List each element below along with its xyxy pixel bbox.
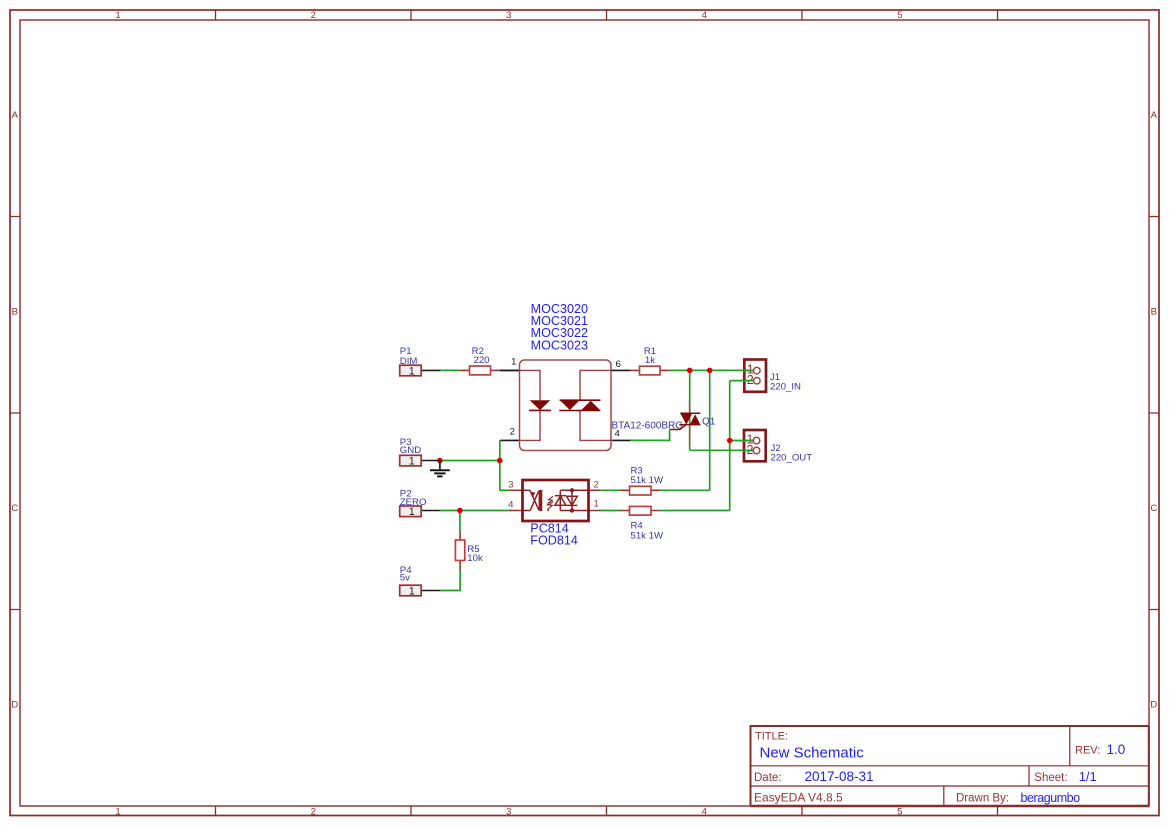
ruler ticks left <box>10 217 20 610</box>
svg-text:EasyEDA V4.8.5: EasyEDA V4.8.5 <box>754 791 843 805</box>
svg-text:A: A <box>1151 110 1158 121</box>
junction node R1-J1 a <box>687 368 693 374</box>
svg-text:beragumbo: beragumbo <box>1021 791 1081 805</box>
wire vertical net MT2 to J2 pin2 row <box>689 370 691 450</box>
wire P2 to PC814 pin4 <box>439 510 511 512</box>
label MOC3020 list <box>531 302 588 352</box>
svg-text:1k: 1k <box>645 355 655 366</box>
svg-text:Sheet:: Sheet: <box>1034 772 1067 784</box>
connector J2 <box>742 430 765 461</box>
wire R5 to P4 row <box>439 570 460 591</box>
svg-text:1: 1 <box>115 10 120 21</box>
svg-text:REV:: REV: <box>1075 745 1100 757</box>
svg-text:C: C <box>1150 503 1157 514</box>
svg-text:1.0: 1.0 <box>1107 742 1126 757</box>
junction node GND-MOC2 <box>497 458 503 464</box>
svg-text:51k 1W: 51k 1W <box>631 475 664 486</box>
svg-text:1: 1 <box>594 499 599 510</box>
svg-text:220_IN: 220_IN <box>770 382 801 393</box>
wire R3 to vertical <box>660 489 710 491</box>
optocoupler U2 PC814 <box>508 479 600 521</box>
svg-text:3: 3 <box>508 479 513 490</box>
svg-text:FOD814: FOD814 <box>530 534 578 548</box>
svg-text:1: 1 <box>409 506 415 518</box>
PC814 pin numbers <box>508 479 599 510</box>
svg-text:1: 1 <box>409 365 415 377</box>
junction node ZERO-R5 <box>457 508 463 514</box>
svg-text:Drawn By:: Drawn By: <box>956 793 1009 805</box>
svg-text:2: 2 <box>311 806 316 817</box>
junction node R1-J1 b <box>707 368 713 374</box>
MOC LED <box>530 400 550 410</box>
svg-text:4: 4 <box>702 10 707 21</box>
svg-text:6: 6 <box>616 359 621 370</box>
label PC814 FOD814 <box>530 522 578 548</box>
svg-text:1: 1 <box>409 585 415 597</box>
wire R1 to J1 pin1 <box>669 369 753 371</box>
svg-text:D: D <box>1150 700 1157 711</box>
connector J1 <box>743 360 766 392</box>
wire GND row P3 <box>440 460 500 462</box>
wire into PC814 pin3 <box>500 489 511 491</box>
wire vertical J1 pin2 to R4 <box>729 381 731 511</box>
svg-text:D: D <box>11 700 18 711</box>
wire PC pin1 to R4 <box>600 510 621 512</box>
wire J2 pin1 stub <box>730 440 753 442</box>
resistor R5 <box>455 531 464 570</box>
wire J1 pin2 stub <box>730 380 754 382</box>
svg-text:A: A <box>12 110 19 121</box>
svg-text:TITLE:: TITLE: <box>755 730 788 742</box>
opto-triac U MOC3020 <box>500 357 630 451</box>
svg-text:B: B <box>1151 307 1157 318</box>
wire vertical MOC pin2 to PC pin3 <box>499 440 501 490</box>
svg-text:Date:: Date: <box>754 772 782 784</box>
wire vertical J1 pin1 net to R3 <box>709 370 711 490</box>
svg-text:2: 2 <box>311 10 316 21</box>
svg-text:GND: GND <box>400 445 421 456</box>
svg-text:4: 4 <box>702 806 707 817</box>
svg-text:1/1: 1/1 <box>1079 769 1097 784</box>
resistor R2 <box>460 366 520 375</box>
TITLEBLOCK <box>751 726 1150 806</box>
svg-text:MOC3023: MOC3023 <box>531 338 588 352</box>
wire P2 node down to R5 <box>459 511 461 532</box>
svg-text:5: 5 <box>897 10 902 21</box>
svg-text:220_OUT: 220_OUT <box>771 452 813 463</box>
MOC triac <box>560 399 601 401</box>
MOC pin numbers <box>510 357 621 440</box>
junction node J2 pin1 <box>727 438 733 444</box>
wire PC pin2 to R3 <box>600 489 621 491</box>
junction node GND at P3 <box>437 458 443 464</box>
connector P3 <box>400 455 440 467</box>
ruler ticks bottom <box>216 806 998 816</box>
title block column dividers <box>944 726 1070 806</box>
svg-text:1: 1 <box>409 456 415 468</box>
svg-text:4: 4 <box>508 499 514 510</box>
svg-text:1: 1 <box>511 357 516 368</box>
svg-text:3: 3 <box>506 10 511 21</box>
SCHEMATIC <box>400 302 813 597</box>
svg-text:New Schematic: New Schematic <box>760 744 865 761</box>
triac Q1 <box>670 400 701 445</box>
wire J2 pin2 row <box>690 449 753 451</box>
connector P4 <box>400 585 440 597</box>
wire R4 to vertical <box>660 510 730 512</box>
svg-text:BTA12-600BRG: BTA12-600BRG <box>611 421 683 432</box>
wire P1 to R2 <box>440 369 460 371</box>
PC814 photodiodes <box>555 490 589 510</box>
svg-text:5: 5 <box>897 806 902 817</box>
svg-text:B: B <box>12 307 18 318</box>
wire MOC pin4 to triac gate <box>630 430 670 441</box>
PC814 LED arrow <box>531 492 536 497</box>
connector P1 <box>400 365 441 377</box>
svg-text:Q1: Q1 <box>702 417 716 428</box>
svg-text:ZERO: ZERO <box>400 497 427 508</box>
svg-text:2: 2 <box>510 427 515 438</box>
svg-text:DIM: DIM <box>400 356 418 367</box>
resistor R1 <box>611 366 669 375</box>
svg-text:2: 2 <box>594 479 599 490</box>
ruler ticks right <box>1149 217 1159 610</box>
svg-text:220: 220 <box>473 355 489 366</box>
connector P2 <box>400 506 440 518</box>
ground <box>430 461 450 477</box>
resistor R4 <box>620 506 660 515</box>
svg-text:51k 1W: 51k 1W <box>631 531 664 542</box>
PC814 light arrows <box>548 496 554 509</box>
svg-text:5v: 5v <box>400 573 410 584</box>
resistor R3 <box>620 486 660 495</box>
svg-text:1: 1 <box>115 806 120 817</box>
svg-text:3: 3 <box>506 806 511 817</box>
PC814 LED bar <box>539 490 543 511</box>
title block outline <box>751 726 1150 806</box>
svg-text:C: C <box>11 503 18 514</box>
svg-text:10k: 10k <box>467 553 483 564</box>
ruler ticks top <box>216 10 998 20</box>
title block row dividers <box>751 766 1150 786</box>
svg-text:2017-08-31: 2017-08-31 <box>805 769 874 784</box>
